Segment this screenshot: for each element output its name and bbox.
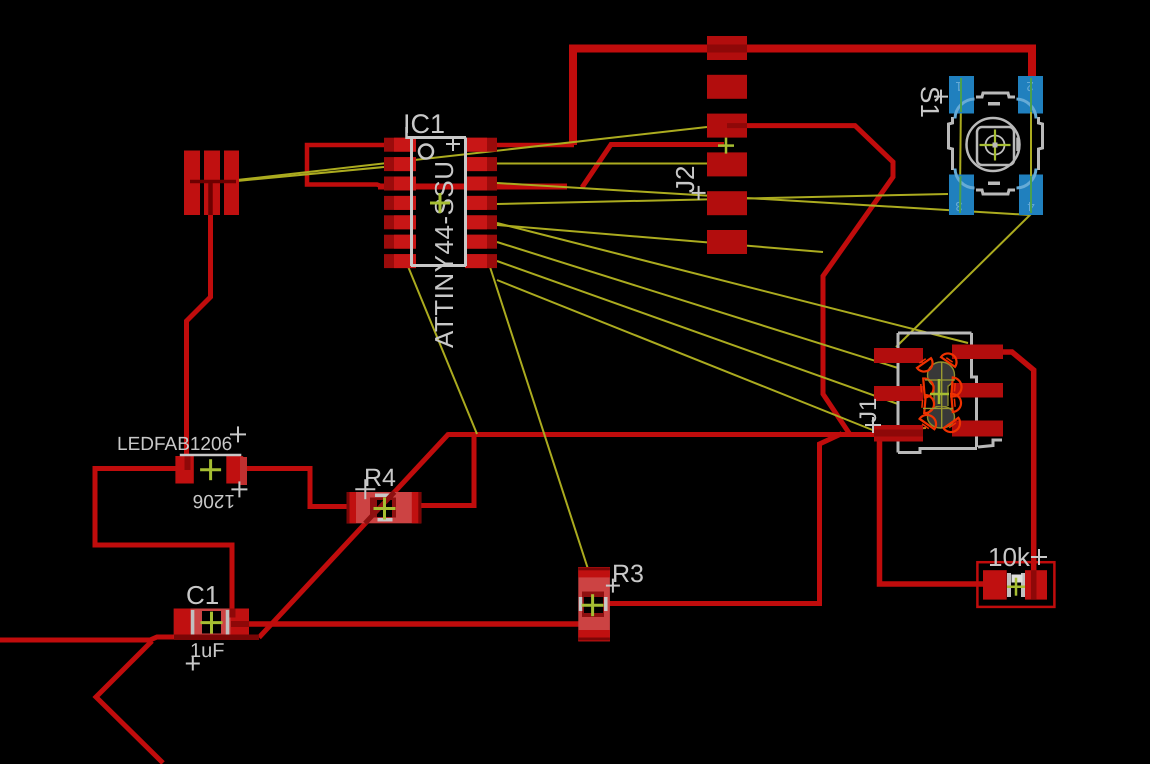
C1 origin cross	[201, 612, 223, 634]
airwire: IC1 pad R7 to R3 top pad	[490, 267, 588, 569]
wire: IC1 pad R1 stub to thick vertical	[497, 143, 574, 148]
svg-text:IC1: IC1	[403, 109, 445, 139]
resistor R3	[578, 567, 610, 641]
R3 origin cross	[582, 594, 604, 616]
R4 origin cross	[374, 498, 396, 520]
svg-text:3: 3	[955, 199, 962, 214]
LED origin cross	[200, 459, 221, 480]
resistor 10k	[977, 562, 1054, 607]
wire: IC row3 diagonal up to J2 area	[582, 145, 724, 188]
10k text origin cross	[1031, 549, 1047, 565]
wire: J1 TR pad to 10k right pad	[996, 352, 1034, 576]
wire overlay: diagonal crossing R4 body	[365, 492, 395, 523]
J2 text origin cross	[692, 186, 706, 200]
LED name text origin cross	[230, 426, 246, 442]
wire: R3 right to vertical up to J1	[604, 434, 842, 604]
IC1 origin cross	[430, 193, 450, 213]
header J1 silkscreen	[898, 333, 1002, 453]
airwire: connector to J2 pad3	[237, 127, 707, 180]
resistor R4	[347, 492, 422, 523]
airwire segment on J2 pad4	[707, 163, 727, 165]
wire: connector down to LED left pad	[187, 182, 211, 460]
LED LEDFAB1206	[175, 455, 247, 485]
wire: net VCC top loop from IC1 pin1 area to J2 pad1 and switch S1	[573, 49, 1032, 146]
wire: long horizontal GND y=434 to J1 pad BL	[448, 432, 880, 437]
wire: diagonal from C1 right area up to junction	[259, 434, 449, 638]
svg-text:LEDFAB1206: LEDFAB1206	[117, 434, 232, 455]
airwire segment on J1 BL pad	[875, 428, 926, 431]
capacitor C1	[174, 609, 259, 641]
airwire: IC1 pad R6 to J1 ML pad	[497, 242, 898, 368]
switch S1	[949, 76, 1044, 215]
C1 value text origin cross	[186, 657, 200, 671]
airwire: IC1 pad R3 to S1 BR pad long	[497, 183, 1030, 215]
airwire: IC1 pad R2 to J2 pad4	[497, 163, 707, 165]
airwire: IC1 pad L7 to trace junction	[407, 264, 477, 434]
connector 3-pad left	[184, 151, 239, 216]
airwire: connector to IC1 pad L2	[237, 167, 384, 181]
IC1 pads right column (pins 8-14)	[465, 138, 497, 268]
svg-text:1uF: 1uF	[190, 640, 224, 662]
J1 origin cross	[930, 379, 949, 404]
J1 center art orange leaf shapes	[917, 353, 962, 432]
svg-text:ATTINY44-SSU: ATTINY44-SSU	[429, 160, 459, 348]
J1 pads right (2,4,6)	[952, 345, 1003, 437]
R3 text origin cross	[606, 579, 620, 593]
J1 text origin cross	[865, 417, 881, 433]
R4 text origin cross	[355, 479, 375, 499]
airwire segment on J1 ML pad	[875, 396, 899, 397]
wire: IC1 pad L1 loop to pad L3	[307, 145, 384, 187]
svg-text:C1: C1	[186, 580, 219, 610]
svg-text:R4: R4	[364, 464, 396, 492]
airwire: IC1 pad R5 to J1 TR pad	[497, 223, 968, 343]
wire: C1 right pad right to R3 bottom area	[240, 621, 580, 627]
airwire segment on J2 pad5	[707, 196, 747, 199]
wire: LED right pad to R4 left pad	[241, 469, 352, 507]
J1 center art olive lines	[923, 362, 955, 428]
J2 origin cross	[718, 138, 734, 154]
wire: J1 BL pad down to 10k left pad	[880, 438, 987, 584]
airwire: S1 TR pad to BR pad right side	[1030, 96, 1032, 213]
10k origin cross	[1007, 578, 1025, 596]
svg-text:J1: J1	[855, 398, 882, 423]
connector J2 pads	[707, 36, 747, 254]
LED value text origin cross	[231, 481, 247, 497]
airwire: S1 TL pad to BL pad	[960, 96, 961, 192]
svg-text:R3: R3	[612, 560, 644, 588]
J2 overlap dark band pad1	[707, 45, 747, 53]
J1 pads left (1,3,5)	[874, 348, 923, 442]
svg-text:J2: J2	[670, 166, 700, 193]
S1 origin crosshair	[980, 130, 1011, 161]
IC IC1 silkscreen outline	[406, 127, 466, 266]
wire: bottom horizontal from left edge to C1	[0, 637, 259, 640]
airwire greenish overlay on S1 pads	[960, 78, 1031, 213]
wire: R4 right pad up to horizontal	[414, 432, 474, 506]
airwire: IC1 pad R5 shallow to GND trace	[497, 225, 823, 252]
svg-text:10k: 10k	[988, 542, 1031, 572]
airwire: S1 BR pad to J1 TL pad	[896, 214, 1031, 347]
wire: LED left pad loop to C1 right pad	[95, 469, 232, 615]
airwire: IC1 pad R7 to J1 BL pad	[497, 261, 898, 404]
J2 overlap dark band pad3	[727, 123, 747, 128]
J1 center art dark blobs	[928, 362, 955, 428]
airwire: fourth fan line to J1 BL pad	[497, 280, 875, 431]
IC1 text origin cross	[446, 137, 460, 151]
airwire: IC1 pad R4 to S1 bottom-left pad	[497, 194, 948, 204]
S1 text origin cross	[934, 90, 948, 104]
svg-text:S1: S1	[915, 86, 945, 118]
wire: IC1 row3 horizontal through IC	[378, 184, 567, 190]
svg-text:1206: 1206	[193, 490, 235, 511]
IC1 pads left column (pins 1-7)	[384, 138, 416, 268]
wire: J2 pad3 to J1 long path	[740, 126, 893, 435]
wire: V shape bottom left	[96, 641, 163, 763]
